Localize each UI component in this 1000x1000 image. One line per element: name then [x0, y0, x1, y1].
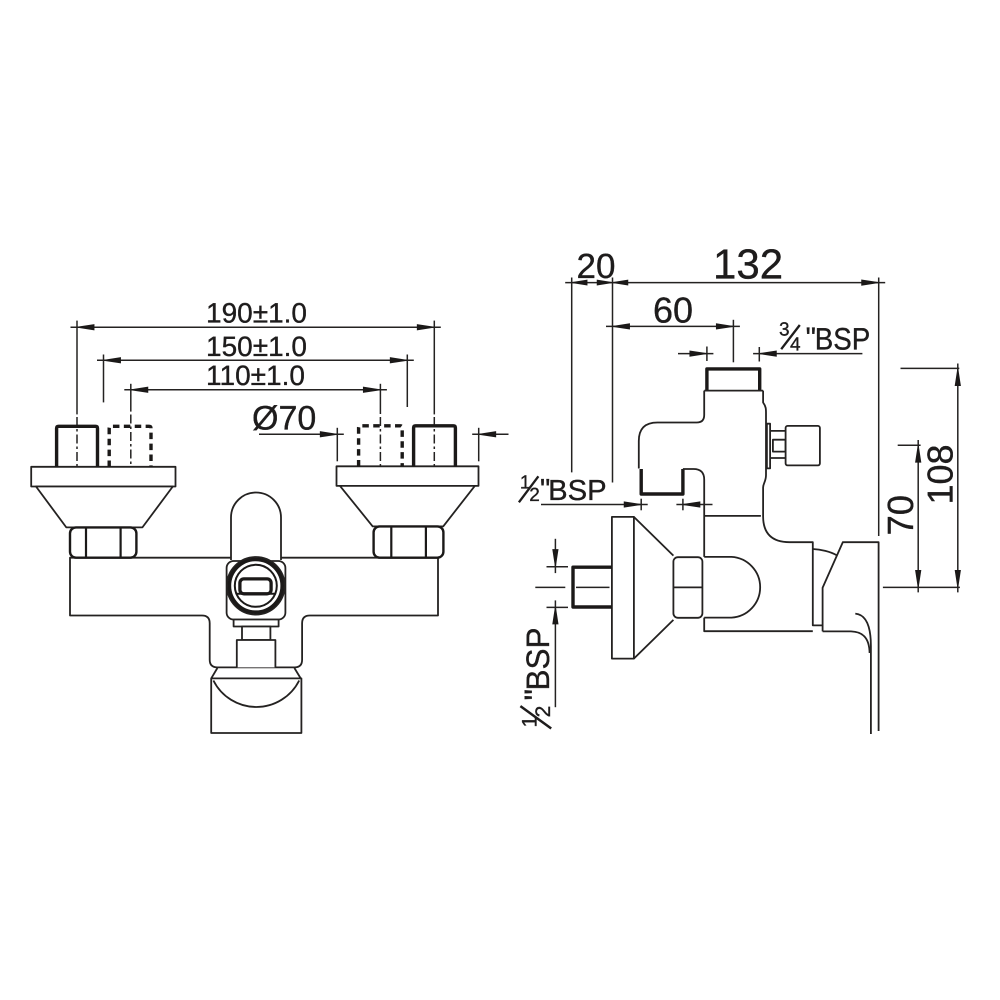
svg-text:BSP: BSP: [520, 628, 556, 691]
right solid stud: [414, 426, 456, 467]
inlet stub centerline: [535, 586, 609, 588]
centerline right solid stud: [433, 417, 435, 471]
pipe top shoulder line: [704, 390, 763, 392]
dim 20 left extension line: [571, 278, 573, 473]
left dashed stud: [109, 426, 151, 467]
side knob thin plate: [767, 424, 770, 469]
diverter outer circle: [227, 557, 285, 615]
top stub width dim left arrow: [678, 347, 713, 362]
left nut facet lines: [86, 527, 121, 557]
right dashed stud: [359, 426, 403, 467]
svg-text:190±1.0: 190±1.0: [206, 298, 307, 329]
dim 108 top extension line: [901, 367, 960, 369]
dim 190±1.0 dimension line: [71, 298, 441, 330]
dim 150 left extension line: [103, 355, 105, 403]
under-housing plate: [234, 620, 279, 627]
dim 150±1.0 dimension line: [97, 331, 414, 363]
lower outlet boss (D shape): [704, 557, 760, 618]
svg-text:3: 3: [779, 320, 790, 341]
dim 110 left extension line: [130, 384, 132, 412]
lower block: [237, 640, 276, 667]
right nut facet lines: [391, 526, 426, 557]
dim 110±1.0 dimension line: [124, 360, 387, 392]
inlet stub vertical dim upper arrow: [547, 539, 569, 573]
arm underside and body left edge: [683, 469, 813, 631]
right flange cone: [340, 486, 475, 527]
svg-text:70: 70: [880, 495, 921, 536]
dim 60 right extension line: [732, 320, 734, 363]
body bottom right corner into lever: [823, 631, 870, 653]
spout pipe: [231, 492, 281, 560]
svg-text:4: 4: [790, 335, 801, 356]
svg-text:132: 132: [713, 241, 783, 288]
dim Ø70 left extension line: [336, 428, 338, 462]
3/4 BSP label and leader: [753, 320, 870, 362]
svg-text:Ø70: Ø70: [252, 400, 316, 438]
side knob neck: [770, 431, 786, 458]
cartridge trapezoid and handle: [823, 542, 879, 731]
dim Ø70 label and leaders: [252, 400, 509, 438]
svg-text:BSP: BSP: [815, 322, 871, 357]
diverter stem: [242, 627, 270, 641]
svg-text:108: 108: [920, 444, 961, 504]
left flange cone: [36, 487, 173, 528]
dim 108 vertical dimension: [920, 364, 961, 593]
side knob: [786, 426, 820, 466]
dim 190 left extension line: [76, 321, 78, 415]
diverter ring bold circle: [229, 559, 282, 612]
diverter chord line: [236, 593, 275, 595]
dim 132 right extension line: [878, 278, 880, 537]
side knob small square: [773, 440, 786, 452]
diverter slot: [240, 579, 271, 594]
wall plane extension line: [612, 278, 614, 483]
side hex nut: [673, 557, 702, 618]
left solid stud: [57, 426, 98, 467]
inlet stub vertical dim lower arrow: [547, 600, 569, 707]
handle curl: [855, 614, 871, 646]
left flange nut: [70, 527, 136, 557]
riser pipe left edge / upper arm / body left edge: [639, 391, 704, 469]
right flange plate: [337, 466, 479, 486]
half BSP label (upper) and leader: [519, 473, 713, 511]
dim Ø70 right extension line: [478, 428, 480, 462]
escutcheon trapezoid plate: [211, 668, 301, 678]
half BSP label (lower, rotated): [518, 628, 556, 729]
svg-text:150±1.0: 150±1.0: [206, 331, 307, 362]
dims bottom shared extension line: [883, 586, 960, 588]
top stub 3/4 BSP: [707, 369, 760, 390]
diverter inner circle: [235, 565, 277, 607]
bottom cup: [211, 678, 301, 733]
half BSP outlet stub: [641, 469, 683, 494]
svg-text:20: 20: [577, 247, 616, 286]
svg-text:110±1.0: 110±1.0: [206, 360, 305, 391]
diverter housing behind circle: [227, 561, 286, 620]
dim 150 right extension line: [406, 355, 408, 408]
dim 70 vertical dimension: [880, 440, 921, 592]
pipe end line at body top: [704, 515, 761, 517]
escutcheon face plate: [612, 517, 634, 659]
bottom cup inner arc: [213, 681, 299, 707]
escutcheon cone slants: [634, 517, 674, 659]
svg-text:60: 60: [653, 289, 693, 330]
riser pipe right edge and body top/right: [763, 391, 823, 626]
centerline left dashed stud: [130, 415, 132, 472]
dim 20 and 132 dimension line: [565, 241, 885, 288]
right flange nut: [374, 526, 444, 557]
wall inlet threaded stub: [573, 567, 612, 607]
lever inner edge: [870, 646, 872, 734]
svg-text:BSP: BSP: [548, 475, 607, 507]
dim 110 right extension line: [379, 384, 381, 414]
centerline left solid stud: [76, 417, 78, 471]
handle hub small curve: [813, 549, 837, 555]
side nut facet line: [673, 586, 702, 588]
left flange plate: [31, 467, 175, 487]
dim 60 dimension line: [606, 289, 740, 330]
dim 190 right extension line: [433, 321, 435, 415]
centerline right dashed stud: [379, 417, 381, 471]
dim 70 top extension line: [898, 444, 921, 446]
svg-text:2: 2: [532, 706, 555, 718]
body band with centre protrusion: [70, 558, 438, 668]
